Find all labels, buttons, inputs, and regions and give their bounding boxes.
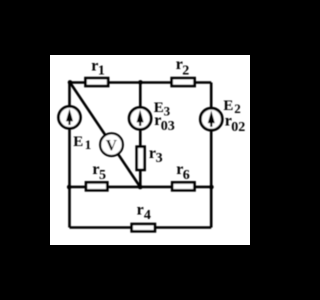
wire bottom row: [70, 226, 212, 229]
resistor r1: [86, 57, 109, 86]
resistor r4: [132, 201, 155, 231]
svg-text:1: 1: [85, 137, 92, 152]
svg-text:r: r: [137, 201, 144, 218]
resistor r3: [137, 145, 163, 170]
svg-text:02: 02: [231, 120, 245, 135]
svg-text:6: 6: [183, 168, 190, 183]
resistor r2: [172, 56, 195, 86]
wire left vertical branch: [68, 83, 71, 228]
source E2: [200, 98, 245, 135]
svg-text:3: 3: [164, 104, 171, 119]
svg-text:V: V: [106, 137, 118, 154]
wire middle vertical branch: [139, 83, 142, 188]
voltmeter V: [100, 133, 123, 156]
svg-text:03: 03: [161, 119, 175, 134]
source E3: [129, 100, 175, 134]
svg-text:2: 2: [234, 101, 241, 116]
svg-text:1: 1: [98, 64, 105, 79]
source E1: [59, 106, 92, 152]
node D: [67, 185, 72, 190]
wire right vertical branch: [210, 83, 213, 228]
wire middle horizontal row: [70, 186, 212, 189]
resistor r6: [172, 161, 194, 190]
svg-text:4: 4: [144, 208, 151, 223]
node F: [209, 185, 214, 190]
svg-text:2: 2: [182, 63, 189, 78]
resistor r5: [86, 161, 107, 190]
svg-text:E: E: [73, 134, 83, 150]
wire diagonal from node A to node E: [70, 83, 140, 188]
wire top: node A to node B to top-right corner: [70, 81, 212, 84]
node B: [138, 80, 143, 85]
svg-text:5: 5: [99, 168, 106, 183]
node A: [68, 80, 73, 85]
svg-text:3: 3: [156, 151, 163, 166]
node E: [138, 185, 143, 190]
